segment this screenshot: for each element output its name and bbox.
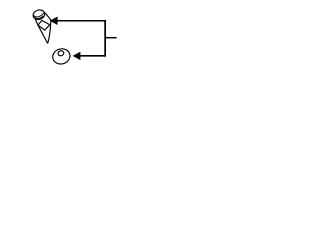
pen cap spiral arc 2 [35, 16, 43, 19]
pen left edge [35, 18, 48, 44]
pen right edge [45, 13, 51, 44]
pen icon [32, 9, 51, 44]
pen collar bottom V [38, 25, 50, 30]
arrow to egg [73, 52, 81, 60]
pen cap ellipse [32, 9, 46, 21]
wire bottom horizontal [80, 55, 106, 57]
pen collar top edges [38, 20, 50, 25]
egg icon [51, 47, 72, 66]
wire top horizontal [57, 20, 106, 22]
wire vertical [104, 20, 106, 57]
egg inner ellipse [57, 50, 64, 56]
wire middle stub [105, 37, 116, 39]
pen cap spiral arc 1 [34, 13, 45, 17]
arrow to pen [50, 17, 58, 25]
egg outer ellipse [51, 47, 72, 66]
